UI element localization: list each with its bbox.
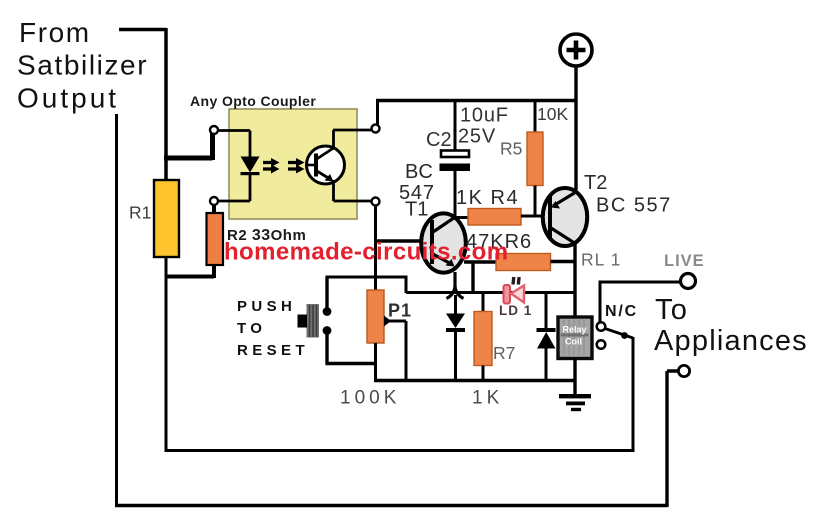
To Appliances terminal xyxy=(678,365,689,376)
label LD 1 xyxy=(499,303,532,318)
svg-text:BC: BC xyxy=(405,161,433,183)
emitter rail wire xyxy=(406,291,575,294)
label R1 xyxy=(129,203,151,223)
svg-text:LIVE: LIVE xyxy=(664,252,705,270)
svg-text:Any Opto Coupler: Any Opto Coupler xyxy=(190,93,316,109)
bottom rail xyxy=(374,379,575,383)
opto light arrows xyxy=(263,158,305,174)
label 1K R4 xyxy=(456,187,519,209)
LED LD1 xyxy=(504,277,525,304)
label 10uF 25V xyxy=(458,105,509,148)
svg-text:R7: R7 xyxy=(493,343,515,363)
svg-text:25V: 25V xyxy=(458,126,496,148)
wire T2 collector down to relay xyxy=(573,244,576,318)
wire opto top-right pin to top rail xyxy=(376,100,379,125)
svg-text:Relay: Relay xyxy=(562,325,586,335)
opto internal LED wiring xyxy=(217,131,250,202)
wire supply to T2 emitter xyxy=(574,100,577,190)
label RL 1 xyxy=(581,250,621,270)
svg-text:Appliances: Appliances xyxy=(654,325,808,357)
push button SW1 xyxy=(298,277,377,364)
svg-text:T2: T2 xyxy=(584,172,607,194)
label LIVE xyxy=(664,252,705,270)
relay contact bottom N/C xyxy=(597,340,606,349)
opto pin bottom-left xyxy=(210,197,218,205)
label R7 xyxy=(493,343,515,363)
capacitor C2 xyxy=(440,100,471,218)
svg-text:1K R4: 1K R4 xyxy=(456,187,519,209)
LIVE terminal xyxy=(681,274,696,289)
label 1K xyxy=(472,388,503,409)
transistor T2 xyxy=(543,188,587,246)
relay coil RL1 xyxy=(558,317,592,359)
supply plus terminal xyxy=(560,34,592,101)
opto coupler box U1 xyxy=(229,109,357,219)
svg-text:P1: P1 xyxy=(388,301,412,321)
label BC 547 T1 xyxy=(399,161,435,221)
label To Appliances xyxy=(654,294,808,357)
svg-text:LD 1: LD 1 xyxy=(499,303,532,318)
wire P1 top xyxy=(374,277,377,291)
diode D1 xyxy=(446,295,465,381)
svg-text:From: From xyxy=(19,17,91,48)
wire inner bottom loop xyxy=(165,337,634,452)
label R5 xyxy=(500,139,522,159)
wire from satbilizer output top xyxy=(119,28,166,181)
label 100K xyxy=(340,388,400,409)
resistor R6 xyxy=(464,254,575,295)
wire outer bottom loop xyxy=(115,371,680,507)
label PUSH TO RESET xyxy=(237,298,309,359)
svg-text:PUSH: PUSH xyxy=(237,298,296,315)
svg-text:T1: T1 xyxy=(405,199,428,221)
wire R2 bottom to R1 xyxy=(165,263,215,278)
svg-text:To: To xyxy=(655,294,688,326)
svg-text:10uF: 10uF xyxy=(460,105,509,127)
opto pin top-right xyxy=(372,125,380,133)
label 10K xyxy=(537,104,568,124)
label homemade-circuits.com xyxy=(224,239,508,266)
svg-text:R5: R5 xyxy=(500,139,522,159)
resistor R5 xyxy=(527,100,543,217)
opto pin top-left xyxy=(210,126,218,134)
label Any Opto Coupler xyxy=(190,93,316,109)
top supply rail xyxy=(376,99,577,103)
svg-text:Coil: Coil xyxy=(565,337,582,347)
wire LIVE xyxy=(599,282,681,322)
resistor R7 xyxy=(474,293,492,381)
label T2 BC 557 xyxy=(584,172,672,217)
label N/C xyxy=(605,303,638,320)
label From Satbilizer Output xyxy=(17,17,148,114)
svg-text:1K: 1K xyxy=(472,388,503,409)
opto phototransistor xyxy=(307,130,373,201)
T1 emitter bell xyxy=(447,272,464,299)
opto pin bottom-right xyxy=(372,198,380,206)
svg-text:Output: Output xyxy=(17,83,119,114)
wire reset row xyxy=(326,277,408,293)
relay contact top xyxy=(597,322,606,331)
wire R2 top stub xyxy=(212,204,216,214)
label P1 xyxy=(388,301,412,321)
wire T1 base xyxy=(376,239,425,242)
label 47KR6 xyxy=(466,231,532,253)
transistor T1 xyxy=(421,213,466,272)
ground xyxy=(559,381,591,411)
wire relay bottom to rail xyxy=(573,358,576,382)
wire R1 bottom xyxy=(165,257,168,451)
svg-text:Satbilizer: Satbilizer xyxy=(17,50,148,81)
wire R1 branch to opto xyxy=(164,133,213,160)
svg-text:R1: R1 xyxy=(129,203,151,223)
svg-text:TO: TO xyxy=(237,320,266,337)
wire left dangling lead xyxy=(115,114,118,505)
svg-text:100K: 100K xyxy=(340,388,400,409)
resistor R2 xyxy=(207,213,224,265)
svg-text:N/C: N/C xyxy=(605,303,638,320)
opto LED D3 xyxy=(241,157,260,176)
svg-text:BC 557: BC 557 xyxy=(596,195,672,217)
svg-text:10K: 10K xyxy=(537,104,568,124)
label C2 xyxy=(426,129,452,151)
resistor R1 xyxy=(154,180,179,257)
svg-text:C2: C2 xyxy=(426,129,452,151)
resistor R4 xyxy=(455,209,549,226)
pot P1 xyxy=(367,290,406,381)
wire opto bottom-right pin down xyxy=(374,206,377,279)
svg-text:homemade-circuits.com: homemade-circuits.com xyxy=(224,239,508,266)
svg-text:RESET: RESET xyxy=(237,342,309,359)
svg-text:RL 1: RL 1 xyxy=(581,250,621,270)
switch arm xyxy=(605,329,633,339)
diode D2 flyback xyxy=(537,294,556,381)
label R2 33Ohm xyxy=(227,227,306,244)
